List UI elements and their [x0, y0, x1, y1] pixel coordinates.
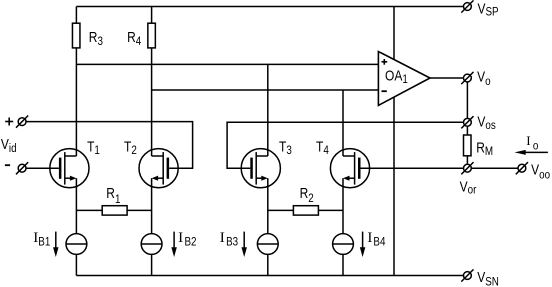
current source IB3	[257, 234, 278, 255]
wire IB2 to rail	[151, 254, 153, 275]
resistor R4	[148, 23, 156, 48]
svg-text:I: I	[178, 230, 183, 246]
label R4	[127, 29, 141, 49]
label T4	[316, 138, 329, 157]
svg-text:I: I	[526, 133, 530, 148]
svg-text:T2: T2	[124, 138, 137, 157]
wire + input terminal to T2 gate	[26, 122, 193, 169]
wire R4 top lead	[151, 7, 153, 24]
wire R2 right	[318, 209, 343, 211]
label T3	[279, 138, 292, 157]
label Vo	[477, 68, 490, 88]
wire T2 source to IB2	[151, 178, 153, 233]
svg-text:Vo: Vo	[477, 68, 490, 88]
wire RM to Vor	[466, 156, 468, 165]
svg-text:RM: RM	[476, 139, 493, 158]
svg-text:Vos: Vos	[477, 113, 496, 132]
svg-text:I: I	[33, 230, 38, 246]
svg-text:Vid: Vid	[1, 136, 17, 155]
wire T3 gate to Vos node	[227, 122, 463, 168]
wire Vos to RM	[466, 126, 468, 135]
svg-text:R1: R1	[106, 185, 120, 207]
wire R1 left	[76, 209, 102, 211]
terminal VSN	[461, 269, 473, 281]
svg-text:o: o	[533, 140, 538, 153]
arrow IB4 current	[360, 232, 366, 257]
op-amp positive supply wire	[393, 7, 395, 60]
label VSP	[478, 0, 499, 19]
op-amp - pin mark	[382, 90, 387, 92]
label R3	[89, 29, 103, 49]
wire Vor to Voo	[471, 167, 518, 169]
wire IB4 to rail	[342, 254, 344, 275]
arrow Io current	[515, 150, 548, 155]
svg-text:Voo: Voo	[531, 161, 550, 182]
wire T4 gate to Vor node	[361, 167, 464, 169]
transistor T2	[139, 149, 178, 188]
terminal Vos	[461, 116, 473, 128]
svg-text:R3: R3	[89, 29, 103, 49]
transistor T4	[330, 149, 369, 188]
label T1	[87, 138, 100, 157]
op-amp + pin mark	[382, 59, 388, 65]
label R1	[106, 185, 120, 207]
wire R3 bottom to T1 drain	[75, 48, 77, 156]
wire Vo to Vos	[466, 82, 468, 118]
label RM	[476, 139, 493, 158]
label Vid	[1, 136, 17, 155]
wire T4 drain vertical	[342, 90, 344, 156]
op-amp OA1 triangle	[378, 52, 430, 106]
svg-text:I: I	[367, 230, 372, 246]
label Vor	[460, 178, 477, 197]
wire bottom supply rail	[76, 275, 463, 277]
terminal VSP	[461, 0, 473, 12]
wire T4 source to IB4	[342, 178, 344, 233]
svg-text:I: I	[220, 230, 225, 246]
wire node B: drains of T2,T4 to op-amp - input	[152, 89, 379, 91]
svg-text:R2: R2	[300, 185, 314, 205]
label Vos	[477, 113, 496, 132]
wire R1 right	[127, 209, 152, 211]
arrow IB1 current	[53, 232, 59, 257]
wire T1 source to IB1	[75, 178, 77, 233]
label OA1	[385, 67, 408, 86]
svg-text:VSP: VSP	[478, 0, 499, 19]
svg-text:B3: B3	[226, 236, 238, 249]
wire node A: drains of T1,T3 to op-amp + input	[76, 63, 378, 65]
wire R3 top lead	[75, 7, 77, 24]
svg-text:B2: B2	[185, 236, 197, 249]
label T2	[124, 138, 137, 157]
wire T3 source to IB3	[267, 178, 269, 233]
svg-text:B4: B4	[373, 236, 385, 249]
svg-text:B1: B1	[38, 235, 50, 248]
svg-text:R4: R4	[127, 29, 141, 49]
arrow IB3 current	[241, 232, 247, 257]
svg-text:T3: T3	[279, 138, 292, 157]
svg-text:Vor: Vor	[460, 178, 477, 197]
svg-text:OA1: OA1	[385, 67, 408, 86]
svg-text:VSN: VSN	[477, 269, 499, 287]
label Voo	[531, 161, 550, 182]
current source IB1	[66, 234, 87, 255]
resistor RM	[464, 135, 472, 156]
wire R2 left	[268, 209, 294, 211]
terminal - input	[16, 162, 28, 174]
label R2	[300, 185, 314, 205]
wire IB1 to rail	[75, 254, 77, 275]
current source IB4	[333, 234, 354, 255]
terminal Vor	[461, 162, 473, 174]
terminal Vo	[461, 72, 473, 84]
svg-text:T1: T1	[87, 138, 100, 157]
svg-text:T4: T4	[316, 138, 329, 157]
wire top supply rail	[76, 6, 463, 8]
transistor T3	[241, 149, 280, 188]
label VSN	[477, 269, 499, 287]
wire IB3 to rail	[267, 254, 269, 275]
terminal Voo	[516, 162, 528, 174]
plus sign at + input terminal	[5, 118, 13, 126]
minus sign at - input terminal	[5, 164, 10, 166]
op-amp negative supply wire	[393, 97, 395, 275]
current source IB2	[141, 234, 162, 255]
terminal + input	[16, 116, 28, 128]
resistor R2	[293, 206, 318, 215]
wire - input terminal to T1 gate	[26, 167, 59, 169]
wire R4 bottom to T2 drain	[151, 48, 153, 156]
resistor R3	[72, 23, 80, 48]
arrow IB2 current	[171, 232, 177, 257]
transistor T1	[50, 149, 89, 188]
wire T3 drain vertical	[267, 64, 269, 156]
wire op-amp output to Vo terminal	[430, 77, 464, 79]
resistor R1	[102, 206, 127, 215]
